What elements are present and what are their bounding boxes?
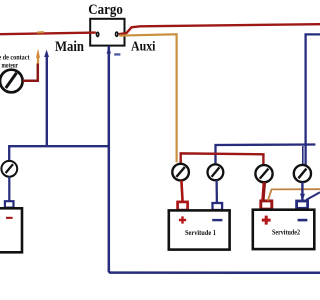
wire red fuse1 to battery1 plus terminal	[181, 180, 182, 202]
battery2 minus mark	[298, 219, 308, 222]
wire blue fuse to moteur battery terminal	[8, 177, 10, 202]
svg-text:Servitude2: Servitude2	[272, 229, 300, 237]
fuse moteur circle	[1, 161, 17, 177]
wire blue bus (fuse2 top to right vertical and edge)	[216, 145, 316, 165]
battery moteur red minus mark	[6, 217, 13, 219]
key switch circle (cle de contact moteur)	[0, 70, 23, 93]
terminal battery1 plus	[178, 202, 188, 210]
wire blue diagonal from right edge to battery2 minus terminal	[306, 192, 320, 200]
wire red fuse3 to battery2 plus terminal (doubled stroke)	[263, 182, 265, 201]
wire red battery feed from left edge to Cargo Main terminal	[0, 33, 96, 35]
battery moteur box	[0, 208, 22, 252]
blue minus dash near Cargo	[114, 53, 120, 55]
svg-text:Auxi: Auxi	[131, 39, 156, 54]
wire dark red from key switch to orange arrow	[23, 64, 38, 81]
wire orange from Cargo Auxi terminal down to fuse servitude 1	[120, 34, 177, 162]
wire orange from battery2 plus terminal to right edge	[268, 189, 320, 200]
fuse servitude 1 circle	[172, 164, 189, 181]
arrowhead blue up below Cargo	[107, 47, 111, 54]
terminal battery2 plus	[261, 201, 272, 209]
wire blue right vertical from top edge to fuse4	[306, 34, 320, 166]
svg-text:moteur: moteur	[2, 61, 19, 69]
svg-text:Cargo: Cargo	[88, 2, 123, 18]
svg-text:Main: Main	[55, 39, 84, 55]
battery2 plus mark	[262, 216, 271, 225]
wire blue from Cargo bottom down to bottom bus	[109, 46, 320, 273]
terminal post Main	[96, 32, 98, 36]
cargo switch box	[90, 19, 124, 46]
terminal battery1 minus	[213, 203, 223, 210]
battery servitude 2 box	[253, 210, 314, 249]
wire blue fuse2 to battery1 minus terminal	[215, 180, 218, 203]
wire red from Cargo Auxi terminal to top-right bus	[119, 24, 320, 34]
wire orange overlap dash on red feed	[37, 31, 44, 33]
wire blue fuse4 to battery2 minus terminal	[301, 182, 303, 201]
arrowhead blue down into battery2 minus terminal	[300, 194, 305, 201]
wire red bus from fuse servitude1 to fuse servitude2	[181, 153, 264, 165]
wire blue horizontal left (moteur battery to center vertical)	[9, 146, 109, 161]
orange arrow up toward Main feed	[37, 56, 39, 64]
terminal battery2 minus	[297, 201, 308, 208]
battery servitude 1 box	[169, 210, 230, 249]
terminal post Auxi	[116, 32, 118, 36]
blue arrow up toward Main label	[46, 54, 48, 146]
fuse servitude 2 plus circle (fuse 3)	[255, 165, 272, 182]
svg-text:e de contact: e de contact	[0, 54, 30, 62]
terminal moteur battery minus	[5, 201, 14, 207]
fuse servitude 2 minus circle (fuse 4)	[294, 165, 311, 182]
svg-text:Servitude 1: Servitude 1	[185, 229, 216, 237]
fuse servitude 2 minus circle (fuse 2)	[208, 164, 224, 180]
battery1 minus mark	[212, 219, 222, 221]
battery1 plus mark	[179, 216, 186, 223]
wire blue doubled segment at junction	[302, 146, 304, 166]
